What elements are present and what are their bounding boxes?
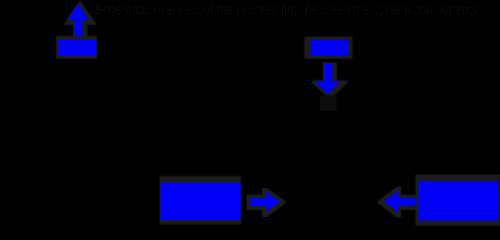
up arrow bbox=[66, 4, 88, 38]
top-middle box bbox=[310, 40, 347, 56]
top-left box shadow bbox=[56, 36, 97, 59]
bottom-left box bbox=[160, 182, 240, 219]
down arrow shadow bbox=[317, 65, 343, 96]
right arrow bbox=[249, 191, 279, 211]
right arrow shadow bbox=[250, 192, 280, 212]
bottom-right box bbox=[418, 181, 498, 221]
svg-text:Schematic overview of the proc: Schematic overview of the process flow b… bbox=[95, 2, 478, 17]
bottom-right box shadow bbox=[416, 175, 500, 226]
down arrow bbox=[314, 63, 340, 94]
left arrow shadow bbox=[383, 191, 415, 213]
top-middle box shadow bbox=[304, 37, 352, 59]
bottom-left box shadow bbox=[159, 176, 241, 224]
top-left box bbox=[57, 39, 96, 55]
left arrow bbox=[383, 190, 415, 212]
up arrow shadow bbox=[69, 6, 91, 40]
faint halo below down arrow bbox=[320, 96, 337, 112]
